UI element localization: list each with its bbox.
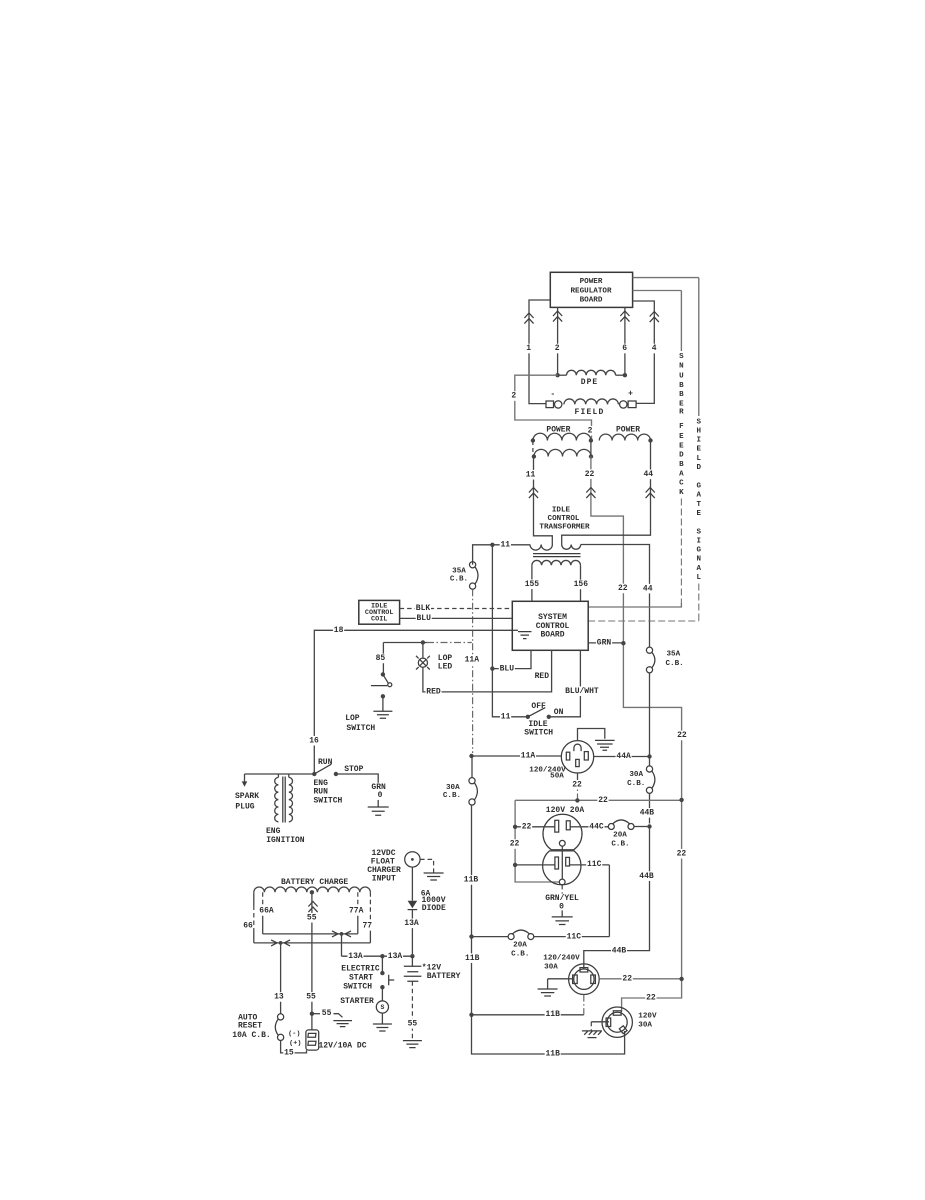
svg-text:STARTER: STARTER bbox=[340, 997, 374, 1006]
svg-text:30A: 30A bbox=[446, 784, 460, 792]
svg-text:ELECTRIC: ELECTRIC bbox=[341, 965, 380, 974]
svg-text:22: 22 bbox=[572, 780, 582, 789]
svg-text:4: 4 bbox=[652, 344, 657, 353]
svg-text:155: 155 bbox=[525, 580, 540, 589]
svg-text:22: 22 bbox=[677, 849, 687, 858]
svg-text:CONTROL: CONTROL bbox=[548, 515, 580, 523]
svg-text:E: E bbox=[697, 446, 702, 454]
svg-text:K: K bbox=[679, 489, 684, 497]
svg-text:22: 22 bbox=[598, 796, 608, 805]
svg-text:POWER: POWER bbox=[616, 425, 640, 434]
svg-text:I: I bbox=[697, 538, 702, 546]
svg-text:11: 11 bbox=[500, 541, 510, 550]
svg-text:IDLE: IDLE bbox=[552, 506, 571, 514]
svg-text:22: 22 bbox=[510, 840, 520, 849]
svg-text:11C: 11C bbox=[587, 860, 602, 869]
svg-text:55: 55 bbox=[306, 993, 316, 1002]
svg-text:44B: 44B bbox=[639, 872, 654, 881]
svg-text:22: 22 bbox=[646, 994, 656, 1003]
svg-text:11A: 11A bbox=[521, 752, 536, 761]
svg-text:LOP: LOP bbox=[345, 714, 360, 723]
svg-text:1: 1 bbox=[526, 344, 531, 353]
svg-text:C.B.: C.B. bbox=[511, 950, 529, 958]
svg-text:13A: 13A bbox=[404, 919, 419, 928]
svg-text:OFF: OFF bbox=[531, 702, 546, 711]
svg-text:(+): (+) bbox=[289, 1040, 301, 1048]
svg-text:11: 11 bbox=[501, 713, 511, 722]
svg-text:FIELD: FIELD bbox=[574, 408, 604, 417]
svg-text:E: E bbox=[697, 510, 702, 518]
svg-text:2: 2 bbox=[588, 426, 593, 435]
svg-text:A: A bbox=[679, 471, 684, 479]
svg-text:44B: 44B bbox=[612, 947, 627, 956]
svg-text:B: B bbox=[679, 461, 684, 469]
svg-text:SPARK: SPARK bbox=[235, 792, 259, 801]
svg-text:2: 2 bbox=[555, 344, 560, 353]
svg-text:11B: 11B bbox=[545, 1050, 560, 1059]
svg-text:RESET: RESET bbox=[238, 1022, 262, 1031]
svg-text:C.B.: C.B. bbox=[627, 780, 645, 788]
svg-text:BLU: BLU bbox=[416, 614, 431, 623]
svg-text:C.B.: C.B. bbox=[450, 575, 468, 583]
svg-text:12VDC: 12VDC bbox=[371, 849, 395, 858]
svg-text:SWITCH: SWITCH bbox=[346, 724, 375, 733]
svg-text:L: L bbox=[697, 574, 702, 582]
svg-text:20A: 20A bbox=[513, 942, 527, 950]
svg-text:BATTERY CHARGE: BATTERY CHARGE bbox=[281, 878, 348, 887]
svg-text:11B: 11B bbox=[545, 1010, 560, 1019]
svg-text:18: 18 bbox=[334, 626, 344, 635]
svg-text:STOP: STOP bbox=[344, 765, 363, 774]
svg-text:120/240V: 120/240V bbox=[543, 954, 580, 962]
svg-text:+: + bbox=[628, 390, 633, 399]
svg-text:55: 55 bbox=[307, 913, 317, 922]
svg-text:R: R bbox=[679, 409, 684, 417]
svg-text:30A: 30A bbox=[638, 1022, 652, 1030]
svg-text:120V: 120V bbox=[638, 1013, 657, 1021]
svg-text:C.B.: C.B. bbox=[443, 792, 461, 800]
svg-text:C.B.: C.B. bbox=[666, 660, 684, 668]
svg-text:120V 20A: 120V 20A bbox=[546, 806, 585, 815]
svg-text:20A: 20A bbox=[613, 831, 627, 839]
svg-text:50A: 50A bbox=[550, 773, 564, 781]
svg-text:S: S bbox=[679, 353, 684, 361]
svg-text:A: A bbox=[697, 565, 702, 573]
svg-text:B: B bbox=[679, 391, 684, 399]
svg-text:22: 22 bbox=[585, 470, 595, 479]
svg-text:RED: RED bbox=[426, 688, 441, 697]
svg-text:T: T bbox=[697, 501, 702, 509]
svg-text:COIL: COIL bbox=[371, 615, 387, 623]
svg-text:10A C.B.: 10A C.B. bbox=[232, 1031, 270, 1040]
svg-text:85: 85 bbox=[376, 654, 386, 663]
svg-text:ON: ON bbox=[554, 708, 564, 717]
svg-text:55: 55 bbox=[322, 1009, 332, 1018]
svg-text:IGNITION: IGNITION bbox=[266, 836, 305, 845]
svg-text:0: 0 bbox=[559, 903, 564, 912]
svg-text:POWER: POWER bbox=[580, 278, 603, 286]
svg-text:44: 44 bbox=[643, 584, 653, 593]
svg-text:156: 156 bbox=[574, 580, 589, 589]
svg-text:A: A bbox=[697, 492, 702, 500]
svg-text:DPE: DPE bbox=[581, 378, 598, 387]
svg-text:77: 77 bbox=[362, 922, 372, 931]
svg-text:G: G bbox=[697, 482, 702, 490]
svg-text:11B: 11B bbox=[464, 876, 479, 885]
svg-text:SWITCH: SWITCH bbox=[524, 729, 553, 738]
svg-text:13A: 13A bbox=[388, 952, 403, 961]
svg-text:C.B.: C.B. bbox=[611, 840, 629, 848]
svg-text:6: 6 bbox=[622, 344, 627, 353]
svg-text:E: E bbox=[679, 433, 684, 441]
svg-text:BOARD: BOARD bbox=[540, 631, 564, 640]
svg-text:DIODE: DIODE bbox=[422, 904, 446, 913]
svg-text:13: 13 bbox=[274, 993, 284, 1002]
svg-text:L: L bbox=[697, 455, 702, 463]
svg-text:F: F bbox=[679, 423, 684, 431]
svg-text:77A: 77A bbox=[349, 907, 364, 916]
svg-text:12V/10A DC: 12V/10A DC bbox=[318, 1041, 366, 1050]
svg-text:BOARD: BOARD bbox=[580, 297, 603, 305]
svg-text:16: 16 bbox=[309, 736, 319, 745]
svg-text:22: 22 bbox=[677, 731, 687, 740]
svg-text:15: 15 bbox=[284, 1049, 294, 1058]
svg-text:IDLE: IDLE bbox=[528, 720, 547, 729]
svg-text:66: 66 bbox=[243, 922, 253, 931]
svg-text:CONTROL: CONTROL bbox=[536, 622, 570, 631]
svg-text:44: 44 bbox=[643, 470, 653, 479]
svg-text:35A: 35A bbox=[452, 568, 466, 576]
svg-text:35A: 35A bbox=[667, 651, 681, 659]
svg-text:REGULATOR: REGULATOR bbox=[570, 287, 611, 295]
svg-text:30A: 30A bbox=[544, 964, 558, 972]
svg-text:D: D bbox=[679, 452, 684, 460]
svg-text:0: 0 bbox=[378, 791, 383, 800]
svg-text:44A: 44A bbox=[616, 752, 631, 761]
svg-text:START: START bbox=[349, 973, 373, 982]
svg-text:-: - bbox=[550, 390, 555, 399]
svg-text:N: N bbox=[697, 556, 702, 564]
svg-text:I: I bbox=[697, 436, 702, 444]
svg-text:E: E bbox=[679, 443, 684, 451]
svg-text:11C: 11C bbox=[567, 932, 582, 941]
svg-text:BATTERY: BATTERY bbox=[427, 972, 461, 981]
svg-text:S: S bbox=[380, 1004, 384, 1011]
svg-text:44B: 44B bbox=[640, 809, 655, 818]
svg-text:13A: 13A bbox=[348, 952, 363, 961]
svg-text:BLK: BLK bbox=[416, 604, 431, 613]
svg-text:LED: LED bbox=[438, 663, 453, 672]
svg-text:22: 22 bbox=[618, 584, 628, 593]
svg-text:BLU/WHT: BLU/WHT bbox=[565, 687, 599, 696]
svg-text:44C: 44C bbox=[589, 822, 604, 831]
svg-text:PLUG: PLUG bbox=[235, 803, 254, 812]
svg-text:22: 22 bbox=[622, 974, 632, 983]
svg-text:TRANSFORMER: TRANSFORMER bbox=[539, 524, 590, 532]
svg-text:11: 11 bbox=[526, 470, 536, 479]
svg-text:INPUT: INPUT bbox=[372, 874, 396, 883]
svg-text:22: 22 bbox=[522, 822, 532, 831]
svg-text:GRN: GRN bbox=[597, 638, 612, 647]
svg-text:E: E bbox=[679, 400, 684, 408]
svg-text:U: U bbox=[679, 372, 684, 380]
svg-text:11B: 11B bbox=[465, 954, 480, 963]
svg-text:RUN: RUN bbox=[318, 758, 333, 767]
svg-text:C: C bbox=[679, 480, 684, 488]
svg-text:BLU: BLU bbox=[500, 664, 515, 673]
svg-text:ENG: ENG bbox=[266, 827, 281, 836]
svg-text:H: H bbox=[697, 428, 702, 436]
svg-text:D: D bbox=[697, 464, 702, 472]
svg-text:(-): (-) bbox=[288, 1030, 300, 1038]
svg-text:SYSTEM: SYSTEM bbox=[538, 613, 567, 622]
svg-text:N: N bbox=[679, 363, 684, 371]
svg-text:SWITCH: SWITCH bbox=[314, 797, 343, 806]
svg-text:S: S bbox=[697, 528, 702, 536]
svg-text:G: G bbox=[697, 547, 702, 555]
svg-text:55: 55 bbox=[408, 1020, 418, 1029]
svg-text:RED: RED bbox=[535, 672, 550, 681]
svg-text:66A: 66A bbox=[259, 907, 274, 916]
svg-text:RUN: RUN bbox=[314, 787, 329, 796]
svg-text:S: S bbox=[697, 418, 702, 426]
svg-text:LOP: LOP bbox=[438, 654, 453, 663]
svg-text:30A: 30A bbox=[629, 771, 643, 779]
svg-text:SWITCH: SWITCH bbox=[343, 982, 372, 991]
svg-text:11A: 11A bbox=[465, 656, 480, 665]
svg-text:B: B bbox=[679, 382, 684, 390]
svg-text:2: 2 bbox=[511, 392, 516, 401]
